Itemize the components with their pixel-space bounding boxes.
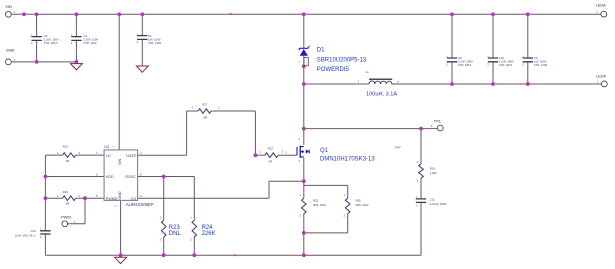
svg-text:GATE: GATE [126,154,136,158]
svg-text:Q1: Q1 [320,148,329,154]
svg-text:PWM: PWM [61,215,71,220]
svg-text:DNL: DNL [169,231,182,237]
svg-text:POWERDI5: POWERDI5 [317,67,350,73]
svg-text:X7R, 1206: X7R, 1206 [148,41,162,45]
svg-text:VIN: VIN [118,159,122,165]
svg-text:LEDK: LEDK [596,74,607,79]
svg-text:R25: R25 [313,199,319,203]
svg-text:1.00k: 1.00k [430,171,437,175]
svg-text:R20: R20 [63,190,69,194]
svg-text:0R5, 2512: 0R5, 2512 [356,203,369,207]
svg-text:VIN: VIN [5,4,12,9]
svg-text:226K: 226K [202,231,216,237]
svg-text:R21: R21 [63,144,69,148]
svg-text:X7R, 1812: X7R, 1812 [499,63,513,67]
svg-text:GND: GND [6,47,15,52]
svg-text:0R: 0R [204,115,208,119]
svg-text:R12: R12 [268,146,274,150]
svg-text:C12: C12 [31,229,37,233]
svg-text:0R5, 2512: 0R5, 2512 [313,203,326,207]
svg-text:0R: 0R [66,202,70,206]
svg-text:ROSC: ROSC [125,175,136,179]
svg-text:D1: D1 [317,48,325,54]
svg-text:DMN10H170SK3-13: DMN10H170SK3-13 [320,156,375,162]
svg-text:C11: C11 [430,198,435,202]
svg-text:LEDA: LEDA [596,3,607,8]
svg-text:LD: LD [106,154,111,158]
svg-text:100uH, 3.1A: 100uH, 3.1A [366,92,397,98]
svg-text:X7R, 1206: X7R, 1206 [534,63,548,67]
svg-text:0.01uF, 100V: 0.01uF, 100V [430,202,447,206]
svg-text:10uF, 10V, C8, X: 10uF, 10V, C8, X [15,233,36,237]
svg-text:CS: CS [131,197,137,201]
svg-text:X7R, 1812: X7R, 1812 [458,63,472,67]
svg-text:AL9910S08EP: AL9910S08EP [126,202,154,207]
svg-text:R26: R26 [356,199,362,203]
svg-text:GND: GND [118,191,122,200]
svg-text:R17: R17 [202,103,208,107]
svg-text:0R: 0R [66,159,70,163]
svg-text:X7R, 1812: X7R, 1812 [44,41,58,45]
svg-text:L1: L1 [366,70,370,74]
svg-text:SBR10U200P5-13: SBR10U200P5-13 [317,57,367,63]
svg-text:VDD: VDD [106,175,114,179]
svg-text:R19: R19 [430,167,436,171]
svg-text:U3: U3 [104,145,109,149]
svg-text:PWMD: PWMD [106,197,118,201]
svg-text:SW: SW [395,145,402,149]
svg-text:0R: 0R [269,159,273,163]
svg-text:X7R, 1812: X7R, 1812 [83,41,97,45]
svg-text:TP1: TP1 [434,119,441,124]
